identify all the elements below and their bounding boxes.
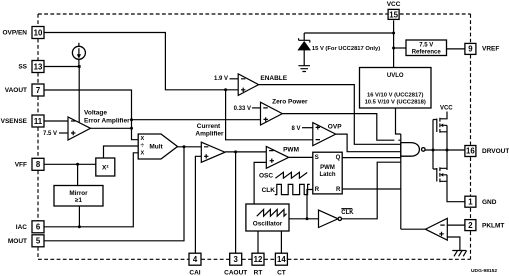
svg-text:CAOUT: CAOUT	[224, 270, 247, 276]
wire VFF pin8	[44, 163, 96, 165]
svg-text:X²: X²	[102, 165, 109, 172]
node CAOUT junction	[234, 150, 237, 153]
wire X2 to multiplier	[104, 146, 139, 158]
comparator ENABLE	[238, 74, 258, 96]
svg-text:11: 11	[34, 117, 43, 126]
latch PWM latch box	[313, 152, 342, 194]
svg-text:Current: Current	[197, 123, 221, 130]
svg-text:7.5 V: 7.5 V	[43, 131, 57, 137]
wire UVLO down to gate	[396, 108, 401, 134]
pin 9 VREF	[465, 43, 499, 54]
wire enable output to gate	[259, 85, 401, 145]
wire VAOUT node to Zero Power +	[132, 119, 261, 121]
svg-text:Oscillator: Oscillator	[253, 221, 283, 228]
svg-text:R: R	[315, 187, 320, 193]
wire PKLMT + to ground	[447, 237, 460, 251]
node IAC junction	[78, 225, 81, 228]
box 7.5V reference	[406, 40, 447, 56]
svg-text:13: 13	[34, 62, 43, 71]
wire 0.33V to zero power -	[252, 107, 261, 109]
svg-text:2: 2	[468, 221, 473, 230]
ground below zener	[298, 66, 310, 72]
svg-text:S: S	[315, 155, 319, 161]
svg-text:0.33 V: 0.33 V	[234, 106, 251, 112]
wire mirror to IAC	[78, 206, 80, 227]
zener diode 15V	[297, 33, 311, 66]
wire logic bus vertical	[400, 134, 402, 229]
pin 11 VSENSE	[1, 115, 44, 127]
gate NAND driver	[401, 143, 425, 157]
svg-text:10.5 V/10 V (UCC2818): 10.5 V/10 V (UCC2818)	[365, 100, 426, 106]
node A VAOUT to ZeroPower	[130, 118, 133, 121]
wire current amp out to PWM comparator	[225, 151, 266, 153]
wire pin10 to ENABLE+	[44, 33, 238, 90]
label OVP	[328, 124, 342, 131]
wire VFF to mirror	[77, 164, 79, 185]
svg-text:VFF: VFF	[15, 162, 27, 169]
pin 1 GND	[465, 196, 497, 207]
svg-text:4: 4	[193, 255, 198, 264]
svg-text:3: 3	[234, 255, 239, 264]
svg-text:IAC: IAC	[16, 224, 28, 231]
border dashed left	[37, 14, 39, 259]
svg-text:X: X	[140, 151, 144, 157]
wire VCC to zener	[304, 32, 393, 34]
wire PKLMT - to pin2	[447, 224, 465, 226]
wire oscillator out	[289, 218, 319, 220]
wire multiplier output to current amp -	[178, 146, 202, 148]
multiplier block	[138, 134, 177, 159]
label CLK bar	[341, 209, 354, 216]
wire RT pin12	[257, 231, 259, 253]
pin 6 IAC	[16, 221, 44, 233]
label Zero Power	[272, 98, 308, 105]
svg-text:CAI: CAI	[189, 270, 200, 276]
pin 3 CAOUT	[224, 253, 247, 276]
pin 7 VAOUT	[5, 84, 44, 96]
transistor upper MOSFET	[437, 112, 447, 133]
clock waveform symbol	[275, 184, 310, 194]
svg-text:÷: ÷	[141, 142, 145, 149]
svg-text:OSC: OSC	[259, 173, 273, 180]
transistor lower MOSFET	[437, 167, 447, 182]
wire 7.5V to error amp +	[59, 132, 68, 134]
label 0.33 V	[234, 106, 251, 112]
svg-text:12: 12	[254, 255, 263, 264]
pin 13 SS	[18, 61, 44, 73]
svg-text:CLK: CLK	[341, 210, 354, 216]
wire upper source to midpoint	[446, 125, 448, 170]
wire SS pin13	[44, 66, 79, 68]
border dashed bottom	[38, 258, 471, 260]
svg-text:OVP/EN: OVP/EN	[2, 30, 27, 37]
svg-text:1: 1	[468, 197, 473, 206]
svg-text:8: 8	[36, 160, 41, 169]
label ENABLE	[260, 75, 287, 82]
svg-text:9: 9	[468, 45, 473, 54]
svg-text:OVP: OVP	[328, 124, 342, 131]
op-amp voltage error amplifier	[68, 117, 91, 140]
wire CAOUT down to pin3	[235, 152, 237, 253]
svg-text:Error Amplifier: Error Amplifier	[84, 117, 130, 124]
pin 14 CT	[275, 253, 287, 276]
svg-text:DRVOUT: DRVOUT	[482, 148, 509, 155]
wire VCC to reference box	[394, 47, 406, 49]
pin 15 VCC	[387, 1, 401, 19]
svg-text:Voltage: Voltage	[84, 110, 107, 117]
wire 1.9V to enable -	[230, 78, 239, 80]
svg-text:8 V: 8 V	[291, 126, 300, 132]
svg-text:7.5 V: 7.5 V	[419, 43, 433, 49]
node gate drive	[432, 149, 435, 152]
label 15 V (For UCC2817 Only)	[312, 46, 380, 52]
svg-text:Q: Q	[336, 155, 341, 161]
wire VAOUT pin7	[44, 90, 138, 140]
svg-text:Latch: Latch	[319, 172, 335, 178]
node B error amp output	[130, 127, 133, 130]
svg-text:Reference: Reference	[412, 50, 442, 56]
svg-text:6: 6	[36, 223, 41, 232]
svg-text:VCC: VCC	[387, 1, 401, 8]
wire clk bar to gate	[342, 162, 401, 219]
svg-text:5: 5	[36, 237, 41, 246]
node driver midpoint	[446, 149, 449, 152]
svg-text:ENABLE: ENABLE	[260, 75, 287, 82]
box X squared	[96, 158, 115, 176]
wire lower source to GND pin1	[447, 175, 465, 202]
svg-text:7: 7	[36, 86, 40, 95]
wire zero power output to gate	[282, 114, 401, 141]
pin 12 RT	[252, 253, 264, 276]
wire CT pin14	[280, 231, 282, 253]
svg-text:PKLMT: PKLMT	[482, 222, 504, 229]
pin 10 OVP/EN	[2, 27, 44, 39]
label CLK	[262, 187, 276, 194]
svg-text:Amplifier: Amplifier	[195, 130, 224, 137]
comparator PKLMT	[425, 218, 447, 240]
wire latch Q to gate	[342, 157, 401, 159]
label VCC driver	[440, 106, 453, 112]
svg-text:10: 10	[34, 28, 43, 37]
node reference tap	[392, 47, 395, 50]
svg-text:PWM: PWM	[320, 165, 335, 171]
svg-text:GND: GND	[482, 199, 497, 206]
border dashed right	[470, 14, 472, 259]
label 8 V	[291, 126, 300, 132]
svg-text:UVLO: UVLO	[387, 73, 404, 79]
svg-text:16 V/10 V (UCC2817): 16 V/10 V (UCC2817)	[367, 93, 423, 99]
svg-text:UDG-98152: UDG-98152	[471, 268, 497, 274]
label Current Amplifier	[195, 123, 224, 138]
label 1.9 V	[214, 76, 228, 82]
wire pin15 VCC down	[393, 20, 395, 67]
label UDG	[471, 268, 497, 274]
box mirror 2:1	[54, 186, 103, 207]
svg-text:15: 15	[389, 10, 398, 19]
node multiplier output	[183, 145, 186, 148]
label PWM	[283, 146, 299, 153]
wire 8V to OVP +	[302, 127, 313, 129]
wire MOUT pin5	[44, 147, 184, 241]
wire oscillator to latch R	[307, 190, 313, 219]
svg-text:Mirror: Mirror	[69, 190, 88, 197]
wire error amp output	[91, 127, 132, 129]
inverter CLK buffer	[319, 210, 342, 227]
wire PKLMT comparator output	[401, 228, 426, 230]
comparator PWM	[266, 147, 288, 169]
ground chassis symbol	[452, 251, 466, 257]
wire latch R right	[342, 188, 401, 190]
svg-text:VAOUT: VAOUT	[5, 87, 27, 94]
svg-text:15 V (For UCC2817 Only): 15 V (For UCC2817 Only)	[312, 46, 380, 52]
svg-text:R: R	[336, 187, 341, 193]
pin 8 VFF	[15, 158, 44, 170]
svg-text:14: 14	[277, 255, 286, 264]
sawtooth waveform symbol	[275, 172, 307, 178]
pin 16 DRVOUT	[465, 146, 509, 157]
wire NAND output to driver	[425, 149, 465, 151]
wire PWM + from oscillator	[254, 162, 266, 204]
comparator OVP	[313, 123, 336, 146]
wire reference to VREF pin9	[447, 48, 465, 50]
svg-text:CLK: CLK	[262, 187, 276, 194]
op-amp current amplifier	[201, 142, 225, 162]
svg-text:VREF: VREF	[482, 46, 499, 53]
svg-text:≥1: ≥1	[75, 197, 82, 204]
svg-text:RT: RT	[254, 270, 263, 276]
svg-text:VSENSE: VSENSE	[1, 118, 28, 125]
current source I-SS circle	[72, 43, 85, 60]
node SS junction	[78, 65, 81, 68]
comparator zero power	[261, 102, 283, 125]
wire OVP output to gate	[336, 134, 401, 152]
wire CAI pin4 to current amp +	[195, 156, 201, 253]
label 7.5 V	[43, 131, 57, 137]
box oscillator	[246, 204, 289, 231]
svg-text:VCC: VCC	[440, 106, 453, 112]
wire OVP/EN down to OVP- input	[226, 90, 313, 140]
label Voltage Error Amplifier	[84, 110, 130, 125]
wire SS down to error amp	[78, 59, 80, 123]
svg-text:16: 16	[466, 147, 475, 156]
svg-text:PWM: PWM	[283, 146, 299, 153]
node oscillator output	[306, 217, 309, 220]
box UVLO	[360, 68, 432, 109]
pin 2 PKLMT	[465, 220, 505, 231]
node junction OVP/EN	[224, 88, 227, 91]
wire PWM out to latch S	[289, 156, 313, 158]
pin 5 MOUT	[8, 235, 44, 247]
label OSC	[259, 173, 273, 180]
wire IAC pin6 to multiplier	[44, 153, 138, 227]
wire VSENSE pin11 to error amp -	[44, 120, 68, 122]
svg-text:SS: SS	[18, 64, 27, 71]
svg-text:Zero Power: Zero Power	[272, 98, 308, 105]
svg-text:MOUT: MOUT	[8, 238, 27, 245]
svg-text:Mult: Mult	[149, 144, 163, 151]
pin 4 CAI	[189, 253, 201, 276]
node VFF junction	[76, 163, 79, 166]
svg-text:CT: CT	[277, 270, 286, 276]
svg-text:1.9 V: 1.9 V	[214, 76, 228, 82]
wire gate bus	[433, 120, 437, 170]
node zener tap	[392, 32, 395, 35]
border dashed top	[38, 13, 471, 15]
